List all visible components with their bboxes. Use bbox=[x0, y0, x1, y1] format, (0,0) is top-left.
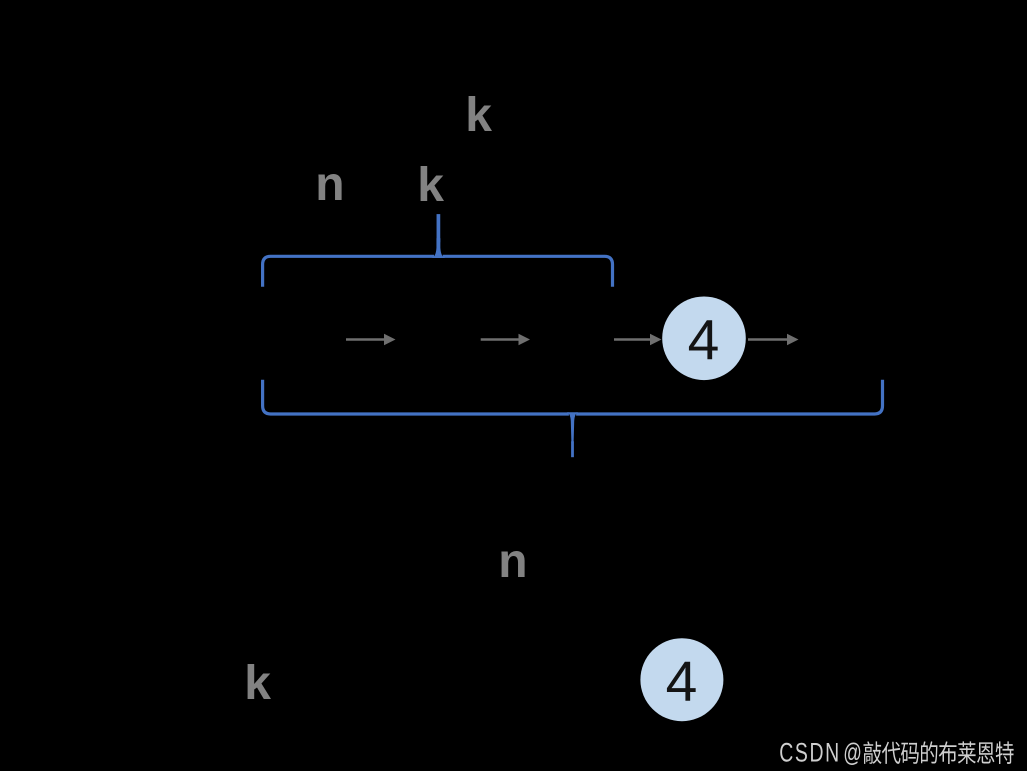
bottom curly brace (span n) bbox=[263, 380, 883, 414]
svg-text:n: n bbox=[315, 158, 344, 211]
svg-text:k: k bbox=[465, 89, 492, 142]
arrow between node 2 and node 3 bbox=[481, 334, 530, 345]
svg-text:@: @ bbox=[843, 739, 862, 768]
top curly brace (span k) bbox=[263, 256, 613, 286]
node circle 4 (bottom) bbox=[640, 638, 723, 721]
svg-text:CSDN: CSDN bbox=[779, 737, 840, 767]
watermark 敲代码的布莱恩特 bbox=[864, 741, 1014, 764]
svg-text:k: k bbox=[244, 657, 271, 710]
arrow out of node 4 bbox=[748, 334, 799, 345]
node circle 4 (top row) bbox=[662, 297, 746, 381]
svg-text:4: 4 bbox=[688, 309, 720, 373]
svg-text:n: n bbox=[498, 535, 527, 588]
arrow into node 4 bbox=[614, 334, 662, 345]
svg-text:k: k bbox=[417, 159, 444, 212]
svg-text:4: 4 bbox=[666, 650, 698, 714]
arrow between node 1 and node 2 bbox=[346, 334, 396, 345]
